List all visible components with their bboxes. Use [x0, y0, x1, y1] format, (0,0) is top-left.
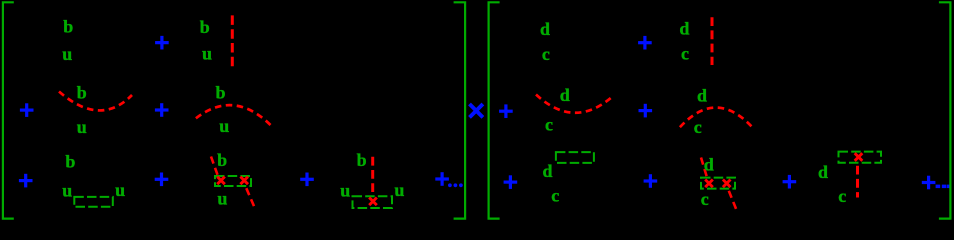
svg-text:b: b: [200, 17, 210, 37]
svg-text:u: u: [202, 43, 212, 63]
svg-text:u: u: [62, 44, 72, 64]
row3 term2 red x mark 1: [217, 177, 225, 185]
plus P1: [155, 36, 169, 50]
right row3 term2 red dashed entry: [701, 158, 707, 178]
svg-text:d: d: [543, 161, 553, 181]
right row3 term2 red dashed exit: [729, 191, 737, 210]
row3 term2 green dashed box: [215, 176, 251, 186]
plus P4: [19, 174, 33, 188]
svg-text:c: c: [542, 44, 550, 64]
right row3 term3 red x mark: [855, 153, 863, 161]
row3 term3 red x mark: [369, 198, 377, 206]
svg-text:u: u: [62, 181, 72, 201]
plus P8: [638, 36, 652, 50]
svg-text:c: c: [694, 117, 702, 137]
row2 term1 red dashed smile arc: [59, 92, 132, 111]
svg-text:c: c: [681, 44, 689, 64]
svg-text:b: b: [63, 16, 73, 36]
right row3 term2 red x mark 2: [723, 180, 731, 188]
right expression closing bracket ]: [939, 2, 951, 218]
right row3 term1 green dashed box: [556, 152, 594, 163]
svg-text:d: d: [704, 154, 714, 174]
svg-text:d: d: [697, 85, 707, 105]
plus P7: [435, 172, 449, 186]
plus P5: [155, 173, 169, 187]
plus P13: [783, 175, 797, 189]
svg-text:c: c: [838, 186, 846, 206]
left outer bracket [: [3, 2, 14, 218]
svg-text:u: u: [219, 116, 229, 136]
svg-text:b: b: [77, 82, 87, 102]
right row1 term2 red dashed vertical: [711, 17, 714, 65]
row3 term2 red x mark 2: [240, 177, 248, 185]
blue ellipsis dots right: [936, 185, 952, 189]
plus P6: [300, 173, 314, 187]
right row3 term2 red x mark 1: [705, 180, 713, 188]
svg-text:c: c: [545, 114, 553, 134]
plus P14: [922, 176, 936, 190]
row2 term2 red dashed arch arc: [196, 105, 273, 127]
svg-text:u: u: [77, 117, 87, 137]
svg-text:b: b: [357, 150, 367, 170]
svg-text:c: c: [551, 185, 559, 205]
plus P11: [504, 175, 518, 189]
right row2 term1 red dashed smile arc: [536, 95, 613, 113]
svg-text:u: u: [217, 188, 227, 208]
row3 term2 red dashed exit: [246, 188, 255, 208]
plus P9: [499, 104, 513, 118]
row3 term3 green dashed box: [353, 196, 393, 208]
plus P10: [639, 104, 653, 118]
svg-text:u: u: [340, 181, 350, 201]
right row3 term3 red dashed vertical: [856, 166, 859, 198]
svg-text:d: d: [560, 85, 570, 105]
plus P2: [20, 103, 34, 117]
row1 term2 red dashed vertical: [231, 15, 234, 66]
row3 term3 red dashed vertical: [371, 157, 374, 196]
svg-text:b: b: [217, 150, 227, 170]
right row2 term2 red dashed arch arc: [680, 108, 752, 128]
row3 term2 red dashed entry: [211, 157, 218, 176]
svg-text:c: c: [701, 189, 709, 209]
right expression opening bracket [: [489, 2, 500, 218]
svg-text:d: d: [540, 19, 550, 39]
svg-text:b: b: [65, 151, 75, 171]
svg-text:u: u: [115, 180, 125, 200]
blue ellipsis dots left: [448, 183, 463, 187]
row3 term1 green dashed box: [74, 197, 113, 207]
svg-text:b: b: [216, 83, 226, 103]
right row3 term2 green dashed box: [701, 178, 735, 189]
left expression closing bracket ]: [454, 2, 466, 218]
plus P3: [155, 103, 169, 117]
svg-text:u: u: [394, 180, 404, 200]
right row3 term3 green dashed box: [839, 152, 882, 163]
blue multiplication sign: [470, 104, 483, 117]
svg-text:d: d: [818, 162, 828, 182]
svg-text:d: d: [679, 19, 689, 39]
plus P12: [644, 174, 658, 188]
